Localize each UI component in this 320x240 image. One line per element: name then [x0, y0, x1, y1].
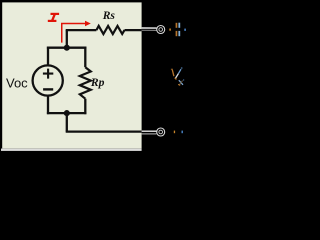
label v_x (output voltage, subpixel fringes)	[171, 68, 184, 85]
junction node A	[64, 45, 70, 51]
wire: top branch vertical from node A	[66, 30, 68, 49]
wire: source top lead	[47, 47, 49, 66]
source + mark	[43, 69, 53, 79]
label - (polarity, subpixel fringes)	[174, 131, 183, 134]
panel bottom light strip	[1, 147, 142, 150]
wire: Rp bottom lead	[84, 99, 86, 115]
wire: bottom rail	[47, 112, 87, 114]
schematic panel	[2, 2, 141, 148]
wire: top rail	[47, 47, 87, 49]
source - mark	[43, 88, 53, 90]
current arrow	[62, 24, 86, 43]
wire: Rp top lead	[84, 47, 86, 68]
resistor Rp	[80, 67, 91, 99]
svg-text:Voc: Voc	[6, 76, 28, 91]
label I (current)	[48, 14, 59, 21]
wire: Rs right lead to panel edge	[125, 29, 142, 31]
junction node B	[64, 110, 70, 116]
svg-text:Rs: Rs	[102, 9, 116, 22]
terminal (bottom, -)	[157, 128, 165, 136]
resistor Rs	[96, 26, 124, 34]
wire: drop from node B	[66, 113, 68, 132]
wire: external top lead (white halo)	[142, 28, 157, 30]
wire: top horizontal to Rs	[66, 29, 97, 31]
wire: external bottom lead (white halo)	[142, 131, 157, 134]
wire: lower rail to panel edge	[66, 130, 142, 132]
terminal (top, +)	[157, 26, 165, 34]
svg-text:Rp: Rp	[90, 76, 105, 89]
source Voc circle	[33, 65, 63, 95]
wire: source bottom lead	[47, 96, 49, 115]
label + (polarity, subpixel fringes)	[169, 23, 186, 37]
